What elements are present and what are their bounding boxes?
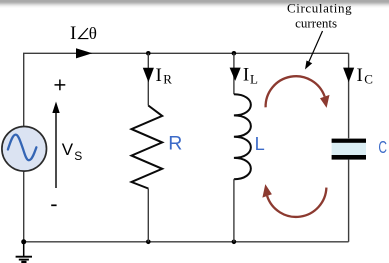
svg-text:L: L — [250, 71, 258, 86]
node dot bottom L — [232, 240, 237, 245]
svg-text:C: C — [364, 71, 373, 86]
toolbar gradient band (background) — [0, 0, 389, 9]
svg-text:θ: θ — [89, 24, 97, 43]
node dot top R — [146, 51, 151, 56]
svg-text:I: I — [156, 65, 162, 86]
label IC — [357, 65, 373, 86]
pointer arrow from label to arc — [305, 31, 323, 70]
arrow I (rightward, on top bus) — [76, 48, 92, 58]
wire: R branch lower — [147, 189, 149, 242]
wire: L branch lower — [233, 179, 235, 242]
minus sign (-) — [51, 204, 56, 206]
arrow IR (downward) — [143, 68, 154, 82]
svg-text:S: S — [74, 149, 82, 163]
wire: left branch upper segment — [23, 53, 25, 127]
label Circulating currents — [287, 0, 352, 30]
svg-text:I: I — [243, 64, 249, 85]
svg-text:I: I — [70, 23, 76, 44]
circulating current arc bottom (clockwise) — [262, 184, 326, 217]
label I angle theta — [70, 23, 97, 44]
svg-text:L: L — [255, 134, 265, 154]
wire: R branch upper — [147, 53, 149, 105]
node dot top L — [232, 51, 237, 56]
node dot bottom source — [21, 239, 26, 244]
wire: bottom horizontal bus — [23, 241, 349, 243]
plus sign (+) — [55, 80, 66, 91]
svg-text:Circulating: Circulating — [287, 0, 352, 15]
node dot bottom R — [146, 240, 151, 245]
wire: L branch upper — [233, 53, 235, 94]
wire: left branch lower segment — [23, 171, 25, 242]
svg-text:currents: currents — [295, 15, 337, 30]
inductor L (4 bumps) — [234, 94, 251, 179]
svg-text:C: C — [378, 137, 387, 157]
label IL — [243, 64, 258, 86]
ac source VS (circle with sine) — [2, 127, 47, 172]
wire: C branch upper — [348, 53, 350, 138]
svg-text:V: V — [62, 140, 74, 159]
arrow VS (upward) — [52, 102, 59, 189]
wire: top horizontal bus — [23, 52, 349, 54]
arrow IC (downward) — [343, 68, 354, 83]
label IR — [156, 65, 173, 86]
ground (below source node) — [16, 242, 32, 262]
resistor R (zigzag) — [132, 106, 163, 189]
wire: C branch lower — [348, 160, 350, 242]
svg-text:R: R — [168, 133, 182, 155]
svg-text:R: R — [163, 71, 172, 86]
capacitor C (plates + dielectric) — [332, 139, 366, 160]
svg-text:I: I — [357, 65, 363, 86]
circulating current arc top (clockwise) — [266, 76, 330, 108]
arrow IL (downward) — [230, 68, 241, 81]
